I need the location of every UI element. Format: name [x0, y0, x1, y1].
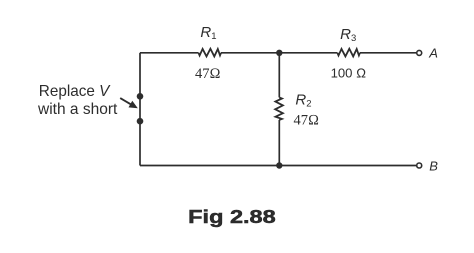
svg-text:B: B [429, 158, 438, 173]
svg-text:Replace V: Replace V [39, 83, 111, 100]
node junction dot at R2 top [276, 50, 282, 56]
wire top-left horizontal segment [140, 52, 199, 54]
resistor R1 [199, 49, 221, 57]
resistor R3 [337, 49, 360, 57]
svg-text:A: A [428, 46, 438, 61]
svg-text:with a short: with a short [37, 101, 118, 118]
wire left vertical (shorted source branch) [139, 53, 141, 166]
wire R3 to terminal A [360, 52, 416, 54]
svg-text:Fig 2.88: Fig 2.88 [188, 206, 276, 227]
terminal B open circle [417, 163, 422, 168]
resistor R2 [275, 97, 283, 120]
source terminal dot lower (where V was) [137, 118, 144, 125]
wire node to R3 [279, 52, 337, 54]
node junction dot at R2 bottom [276, 162, 282, 168]
wire bottom horizontal [140, 165, 416, 167]
svg-text:47Ω: 47Ω [294, 113, 320, 129]
terminal A open circle [417, 50, 422, 55]
source terminal dot upper (where V was) [137, 93, 144, 100]
svg-text:47Ω: 47Ω [195, 66, 221, 82]
wire R2 branch bottom [278, 120, 280, 166]
svg-text:100 Ω: 100 Ω [331, 65, 367, 80]
wire R1 to node at R2 top [221, 52, 279, 54]
wire R2 branch top [278, 53, 280, 98]
annotation arrow pointing to shorted source [120, 98, 138, 108]
